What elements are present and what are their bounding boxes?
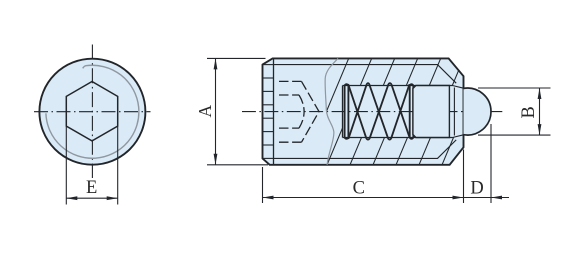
- side view: left thread-end band: [273, 58, 275, 164]
- svg-text:B: B: [519, 106, 539, 118]
- dimension E extension lines: [65, 127, 67, 205]
- front view: horizontal centerline: [34, 111, 151, 113]
- dimension A line and arrows: [215, 58, 217, 164]
- side view: section hatching: [280, 55, 511, 168]
- side view: body outline: [263, 58, 464, 164]
- front view: vertical centerline: [91, 45, 93, 179]
- broken-out section wavy line: [325, 58, 338, 164]
- front view: thread minor-dia arc: [46, 65, 139, 158]
- dimension A extension lines: [207, 57, 266, 59]
- svg-text:C: C: [353, 178, 365, 198]
- dimension B extension lines: [478, 87, 551, 89]
- svg-text:E: E: [86, 178, 97, 198]
- front view: hex socket: [66, 82, 117, 141]
- side view: spring bore edges: [343, 85, 453, 87]
- side view: horizontal centerline: [242, 111, 503, 113]
- front view: body circle: [39, 59, 145, 165]
- dimension E line and arrows: [66, 197, 117, 199]
- svg-text:D: D: [470, 178, 483, 198]
- side view: thread minor line bottom: [274, 140, 457, 159]
- side view: body fill: [263, 58, 464, 164]
- dimension C line and arrows: [263, 197, 464, 199]
- spring: [345, 83, 414, 139]
- side view: hole lip chamfers: [453, 86, 464, 89]
- svg-text:A: A: [195, 105, 215, 118]
- side view: hex socket hidden lines: [279, 81, 319, 142]
- nose dome: [464, 88, 492, 135]
- dimension B line and arrows: [539, 88, 541, 135]
- side view: thread minor line top: [274, 65, 457, 84]
- piston: [413, 86, 450, 138]
- dimension D line and outside arrow: [464, 197, 510, 199]
- dimension C/D extension lines: [262, 167, 264, 203]
- piston retaining lip line: [453, 88, 455, 136]
